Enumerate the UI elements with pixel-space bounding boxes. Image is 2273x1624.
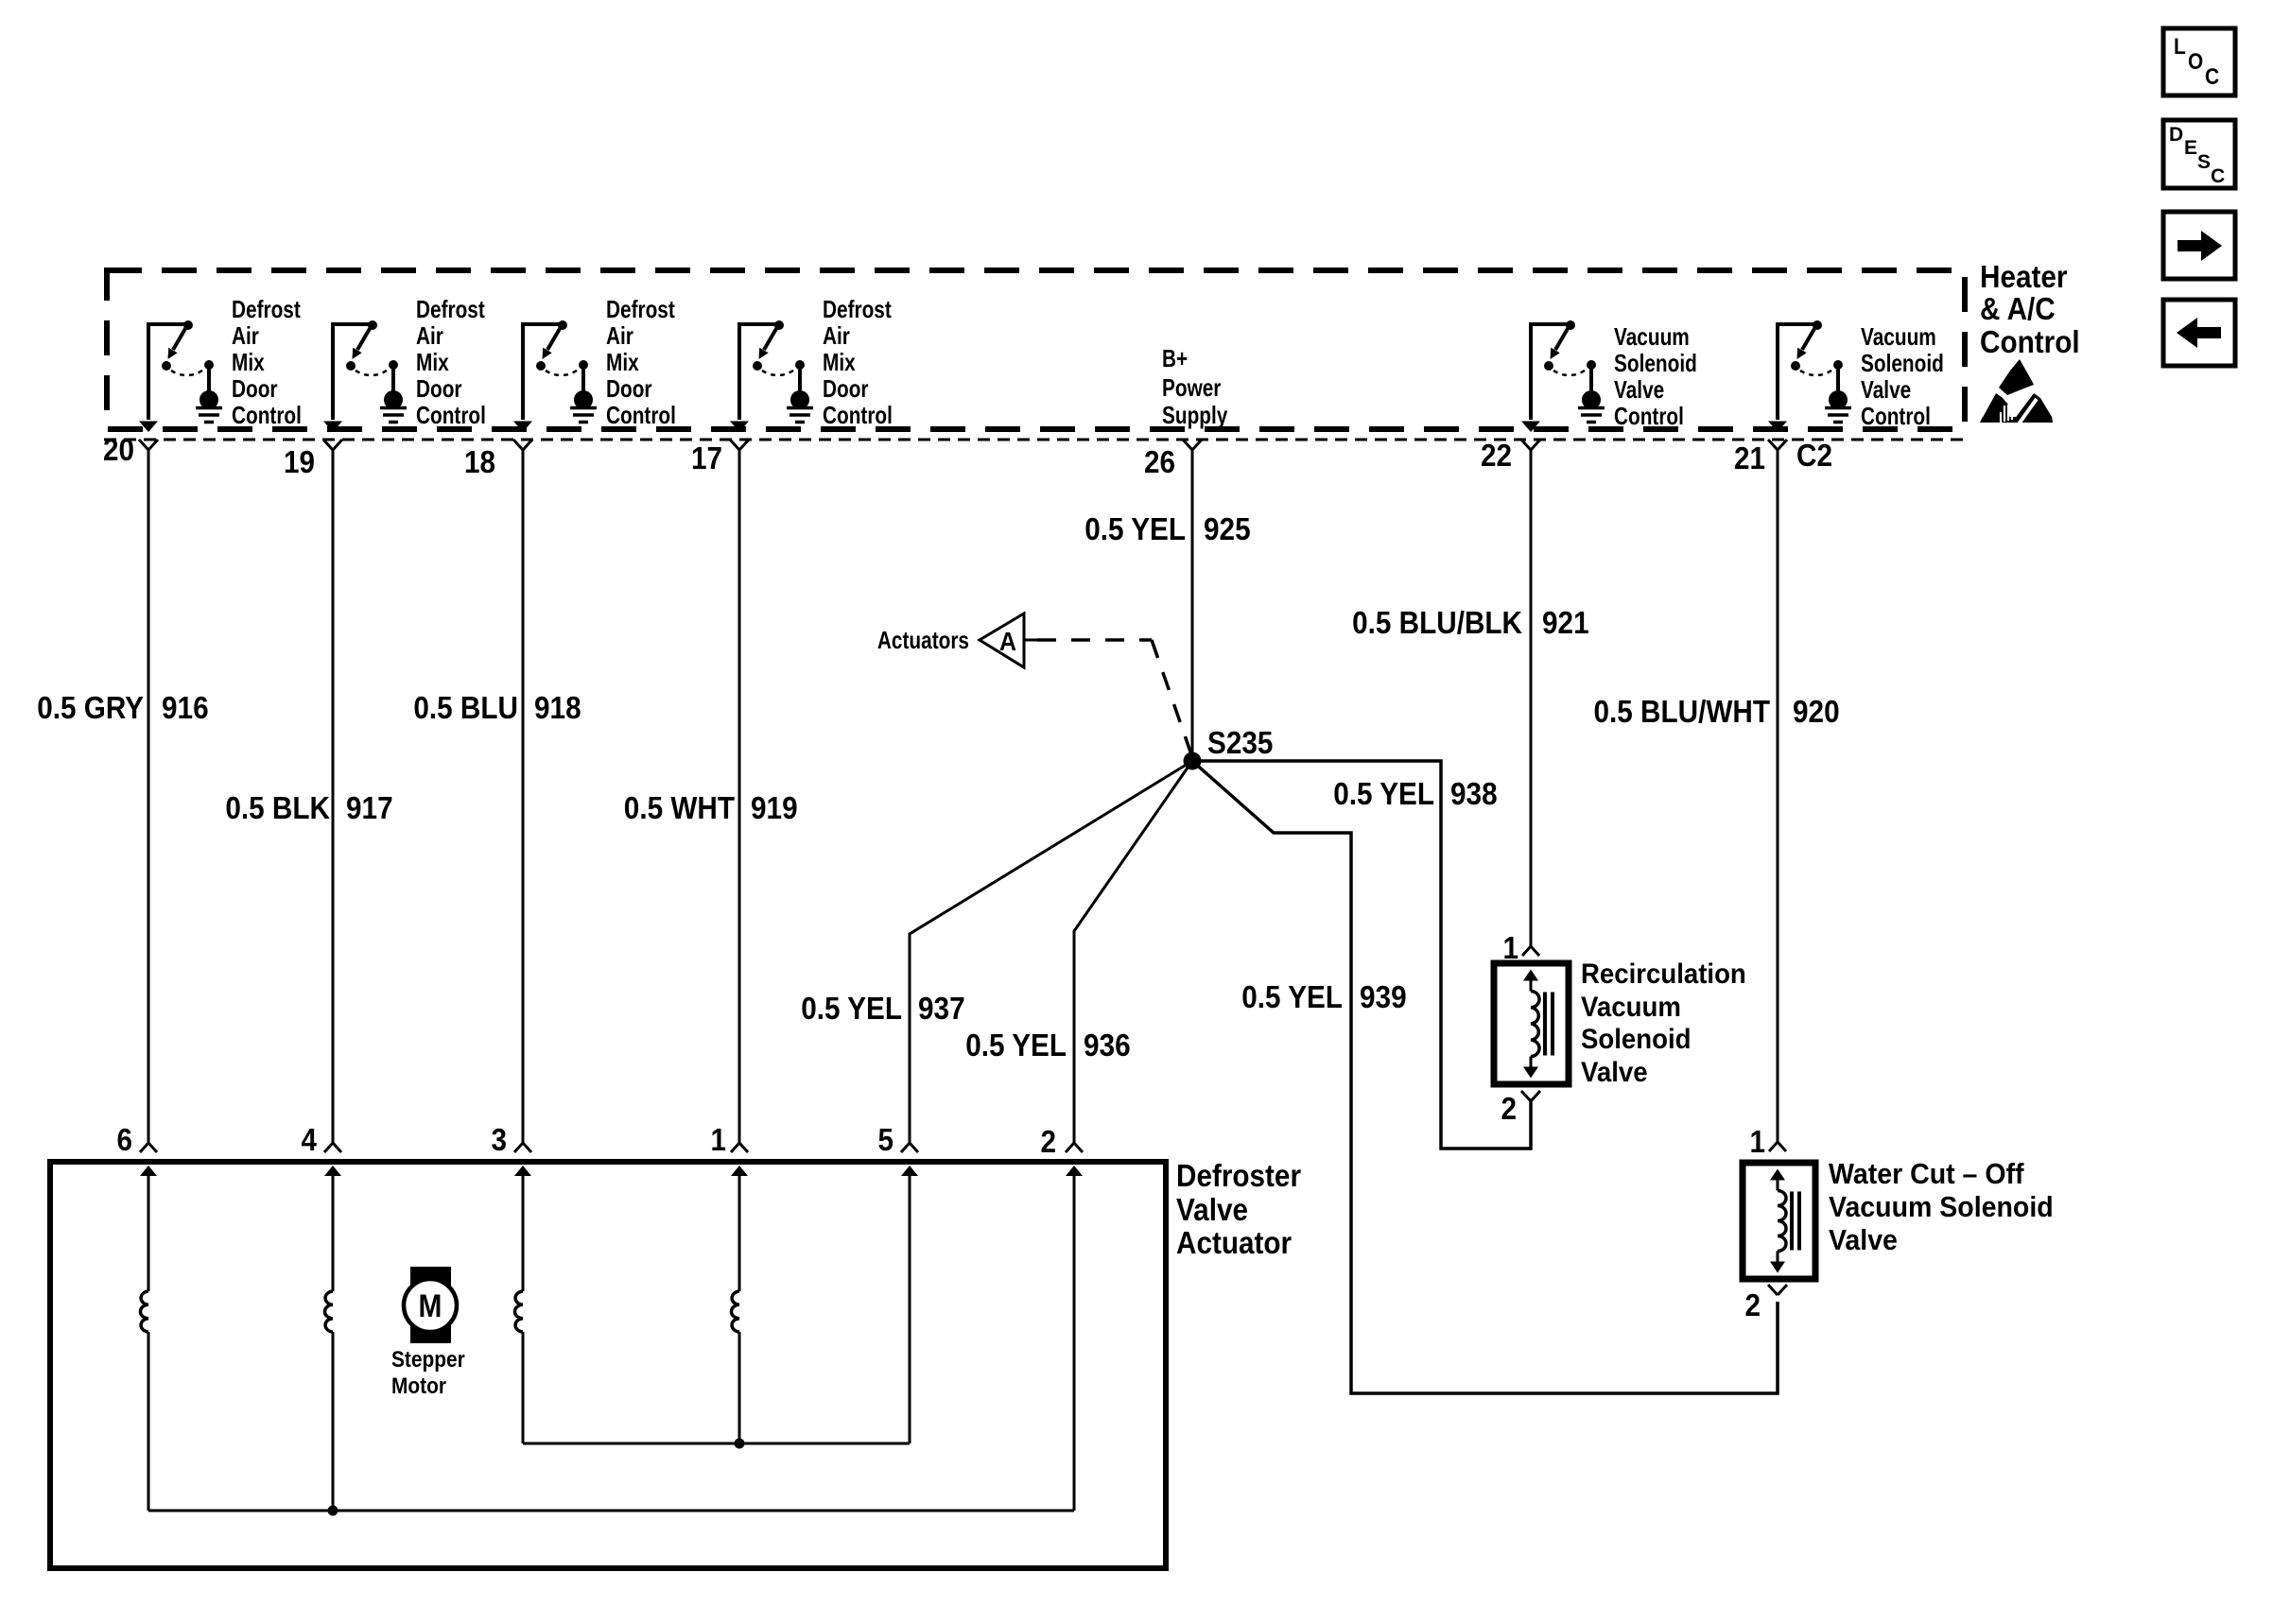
svg-text:939: 939 <box>1360 979 1407 1014</box>
defrost air mix door control actuator M1 (pin 20) <box>139 295 302 432</box>
wire label 0.5 YEL 939 <box>1241 979 1406 1014</box>
svg-text:Vacuum: Vacuum <box>1614 322 1690 351</box>
label Heater & A/C Control <box>1980 259 2080 359</box>
wire 939 (S235 to water cut-off valve pin 2) <box>1192 761 1778 1393</box>
svg-text:Door: Door <box>606 374 652 403</box>
svg-text:Valve: Valve <box>1614 375 1664 404</box>
svg-text:2: 2 <box>1501 1091 1518 1126</box>
Heater & A/C Control module dashed box <box>107 270 1965 429</box>
label Defroster Valve Actuator <box>1176 1158 1301 1260</box>
wire label 0.5 BLU 918 <box>413 690 581 725</box>
defroster valve actuator pin 3 <box>492 1122 532 1176</box>
wire winding 3 to common <box>522 1332 525 1443</box>
svg-text:21: 21 <box>1734 441 1765 475</box>
svg-text:936: 936 <box>1084 1028 1131 1063</box>
svg-text:6: 6 <box>117 1122 133 1157</box>
wire 936 (S235 to defroster pin 2) <box>1074 761 1192 1143</box>
wire 920 (pin 21 to water cut-off valve pin 1) <box>1777 450 1779 1142</box>
wire winding 6 to common <box>147 1332 150 1511</box>
svg-text:0.5 WHT: 0.5 WHT <box>624 790 735 825</box>
recirculation vacuum solenoid valve L1 <box>1494 963 1569 1084</box>
svg-text:0.5 YEL: 0.5 YEL <box>965 1028 1067 1063</box>
legend LOC box <box>2163 28 2235 95</box>
svg-text:Heater: Heater <box>1980 259 2068 294</box>
label Stepper Motor <box>391 1347 465 1399</box>
dashed reference line to splice S235 <box>1037 638 1152 642</box>
svg-text:Air: Air <box>232 321 259 350</box>
wire 937 (S235 to defroster pin 5) <box>910 761 1192 1143</box>
vacuum solenoid valve control driver (pin 21) <box>1768 320 1944 432</box>
defrost air mix door control actuator M4 (pin 17) <box>730 295 893 432</box>
water cut-off valve pin 2 <box>1745 1285 1788 1322</box>
off-page reference Actuators A <box>877 613 1037 667</box>
stepper winding at pin 4 <box>332 1173 335 1291</box>
svg-text:0.5 BLU/BLK: 0.5 BLU/BLK <box>1352 605 1522 640</box>
junction pin 4 common <box>328 1506 338 1516</box>
svg-text:Mix: Mix <box>606 348 639 376</box>
junction pin 1 common <box>735 1439 745 1449</box>
svg-text:938: 938 <box>1450 776 1498 811</box>
wire winding 1 to common <box>738 1332 741 1443</box>
svg-text:Control: Control <box>232 401 302 429</box>
svg-text:C: C <box>2211 165 2225 187</box>
connector C2 pin 17 <box>691 440 749 475</box>
wire pin 5 to common <box>909 1173 911 1443</box>
defroster valve actuator pin 1 <box>711 1122 749 1176</box>
svg-text:S: S <box>2197 151 2211 173</box>
stepper winding at pin 1 <box>738 1173 741 1291</box>
connector C2 thin dashed line <box>104 439 1965 441</box>
label Water Cut-Off Vacuum Solenoid Valve <box>1829 1157 2054 1256</box>
svg-text:Control: Control <box>823 401 893 429</box>
wire winding 4 to common <box>332 1332 335 1511</box>
ESD sensitive symbol <box>1980 359 2053 425</box>
wire 918 (pin 18 to defroster pin 3) <box>522 450 525 1143</box>
svg-text:Solenoid: Solenoid <box>1581 1024 1692 1055</box>
svg-text:Air: Air <box>823 321 850 350</box>
defroster valve actuator pin 5 <box>878 1122 919 1176</box>
defroster valve actuator box <box>50 1162 1166 1568</box>
svg-text:C2: C2 <box>1796 438 1832 473</box>
svg-text:0.5 YEL: 0.5 YEL <box>801 991 902 1026</box>
legend forward-arrow box <box>2163 212 2235 279</box>
svg-text:2: 2 <box>1041 1124 1057 1159</box>
wire 921 (pin 22 to recirculation valve pin 1) <box>1530 450 1533 946</box>
svg-text:Stepper: Stepper <box>391 1347 465 1373</box>
svg-text:Vacuum: Vacuum <box>1581 992 1681 1023</box>
connector C2 pin 26 <box>1144 440 1202 479</box>
wire label 0.5 BLK 917 <box>225 790 392 825</box>
defroster valve actuator pin 4 <box>302 1122 342 1176</box>
wire 919 (pin 17 to defroster pin 1) <box>738 450 741 1143</box>
svg-text:4: 4 <box>302 1122 318 1157</box>
svg-text:Defroster: Defroster <box>1176 1158 1301 1193</box>
connector C2 pin 18 <box>464 440 532 479</box>
svg-text:0.5 GRY: 0.5 GRY <box>37 690 144 725</box>
svg-text:920: 920 <box>1793 694 1840 729</box>
svg-text:Door: Door <box>416 374 462 403</box>
svg-text:2: 2 <box>1745 1287 1761 1322</box>
wire label 0.5 BLU/BLK 921 <box>1352 605 1589 640</box>
svg-text:26: 26 <box>1144 444 1175 479</box>
svg-text:A: A <box>999 627 1016 656</box>
svg-text:1: 1 <box>711 1122 727 1157</box>
svg-text:22: 22 <box>1481 438 1512 473</box>
svg-text:Actuator: Actuator <box>1176 1225 1292 1260</box>
svg-text:S235: S235 <box>1207 725 1273 760</box>
svg-text:Control: Control <box>1980 324 2080 359</box>
connector C2 pin 19 <box>284 440 342 479</box>
defroster valve actuator pin 6 <box>117 1122 158 1176</box>
svg-text:19: 19 <box>284 444 315 479</box>
svg-text:937: 937 <box>918 991 965 1026</box>
svg-text:Vacuum: Vacuum <box>1861 322 1936 351</box>
wire 917 (pin 19 to defroster pin 4) <box>332 450 335 1143</box>
svg-text:C: C <box>2205 64 2219 90</box>
defrost air mix door control actuator M2 (pin 19) <box>323 295 486 432</box>
defroster valve actuator pin 2 <box>1041 1124 1084 1176</box>
svg-text:Defrost: Defrost <box>606 295 675 323</box>
svg-text:D: D <box>2169 124 2183 146</box>
water cut-off valve pin 1 <box>1750 1124 1787 1159</box>
svg-text:Door: Door <box>823 374 869 403</box>
svg-text:Water Cut – Off: Water Cut – Off <box>1829 1157 2024 1190</box>
wire 916 (pin 20 to defroster pin 6) <box>147 450 150 1143</box>
svg-text:Defrost: Defrost <box>232 295 301 323</box>
svg-text:919: 919 <box>751 790 798 825</box>
stepper winding at pin 6 <box>147 1173 150 1291</box>
svg-text:Mix: Mix <box>232 348 265 376</box>
svg-text:Air: Air <box>606 321 633 350</box>
svg-text:Mix: Mix <box>416 348 449 376</box>
stepper winding at pin 3 <box>522 1173 525 1291</box>
recirculation valve pin 1 <box>1503 930 1540 965</box>
svg-text:Solenoid: Solenoid <box>1614 349 1697 377</box>
svg-text:20: 20 <box>103 432 134 467</box>
svg-text:Vacuum Solenoid: Vacuum Solenoid <box>1829 1190 2054 1223</box>
wire label 0.5 YEL 937 <box>801 991 964 1026</box>
wire label 0.5 GRY 916 <box>37 690 208 725</box>
svg-text:0.5 YEL: 0.5 YEL <box>1333 776 1434 811</box>
svg-text:Valve: Valve <box>1176 1192 1248 1227</box>
svg-text:5: 5 <box>878 1122 894 1157</box>
svg-text:0.5 YEL: 0.5 YEL <box>1084 511 1186 546</box>
svg-text:Supply: Supply <box>1162 401 1228 429</box>
wire 938 (S235 to recirculation valve pin 2) <box>1192 761 1531 1149</box>
svg-text:Solenoid: Solenoid <box>1861 349 1944 377</box>
svg-text:E: E <box>2184 137 2197 159</box>
svg-text:Power: Power <box>1162 373 1221 402</box>
svg-text:18: 18 <box>464 444 495 479</box>
common wire A (pins 3-1-5) <box>523 1443 910 1445</box>
wire label 0.5 BLU/WHT 920 <box>1594 694 1840 729</box>
defrost air mix door control actuator M3 (pin 18) <box>513 295 676 432</box>
connector C2 pin 20 <box>103 432 158 467</box>
svg-text:Motor: Motor <box>391 1373 446 1399</box>
legend back-arrow box <box>2163 300 2235 366</box>
svg-text:17: 17 <box>691 441 722 475</box>
svg-text:Door: Door <box>232 374 278 403</box>
svg-text:Valve: Valve <box>1829 1223 1898 1256</box>
water cut-off vacuum solenoid valve L2 <box>1743 1163 1815 1279</box>
svg-text:916: 916 <box>162 690 209 725</box>
svg-text:Defrost: Defrost <box>823 295 892 323</box>
svg-text:917: 917 <box>346 790 393 825</box>
svg-text:Valve: Valve <box>1861 375 1911 404</box>
B+ power supply label (pin 26) <box>1162 344 1228 429</box>
svg-text:0.5 BLU/WHT: 0.5 BLU/WHT <box>1594 694 1771 729</box>
svg-text:Control: Control <box>606 401 676 429</box>
vacuum solenoid valve control driver (pin 22) <box>1521 320 1697 432</box>
svg-text:B+: B+ <box>1162 344 1188 372</box>
svg-text:0.5 BLK: 0.5 BLK <box>225 790 330 825</box>
svg-text:1: 1 <box>1750 1124 1766 1159</box>
svg-text:0.5 YEL: 0.5 YEL <box>1241 979 1343 1014</box>
stepper motor M <box>404 1267 457 1343</box>
common wire B (pins 6-4-2) <box>148 1510 1074 1512</box>
legend DESC box <box>2163 120 2235 188</box>
recirculation valve pin 2 <box>1501 1091 1541 1126</box>
svg-text:Air: Air <box>416 321 443 350</box>
svg-text:Recirculation: Recirculation <box>1581 959 1746 990</box>
svg-text:925: 925 <box>1204 511 1251 546</box>
svg-text:& A/C: & A/C <box>1980 291 2056 326</box>
label Recirculation Vacuum Solenoid Valve <box>1581 959 1746 1088</box>
wire label 0.5 YEL 936 <box>965 1028 1130 1063</box>
wire 925 (pin 26 to splice S235) <box>1191 450 1194 761</box>
connector C2 pin 22 <box>1481 438 1540 473</box>
svg-text:M: M <box>419 1288 442 1324</box>
svg-text:O: O <box>2188 49 2203 75</box>
wire label 0.5 YEL 938 <box>1333 776 1497 811</box>
wire label 0.5 WHT 919 <box>624 790 798 825</box>
svg-text:L: L <box>2174 34 2186 60</box>
svg-text:0.5 BLU: 0.5 BLU <box>413 690 518 725</box>
wire label 0.5 YEL 925 <box>1084 511 1250 546</box>
svg-text:Control: Control <box>1614 402 1684 430</box>
wire pin 2 to common <box>1073 1173 1076 1511</box>
connector C2 pin 21 <box>1734 440 1787 475</box>
splice S235 <box>1184 725 1274 770</box>
svg-text:Defrost: Defrost <box>416 295 485 323</box>
svg-text:Actuators: Actuators <box>877 626 969 654</box>
svg-text:Control: Control <box>1861 402 1931 430</box>
svg-text:921: 921 <box>1542 605 1589 640</box>
svg-text:Control: Control <box>416 401 486 429</box>
svg-text:Mix: Mix <box>823 348 856 376</box>
svg-text:Valve: Valve <box>1581 1057 1648 1088</box>
svg-text:1: 1 <box>1503 930 1519 965</box>
svg-text:918: 918 <box>534 690 581 725</box>
svg-text:3: 3 <box>492 1122 508 1157</box>
